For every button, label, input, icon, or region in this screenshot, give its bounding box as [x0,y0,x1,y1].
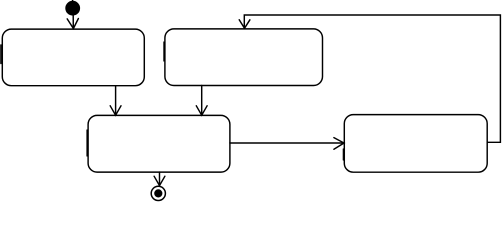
wire A3-to-final [159,172,161,185]
activity A4 (right rounded box) [344,115,487,173]
wire initial-to-A1 [72,15,74,29]
final node outer ring [151,186,165,200]
final node inner dot [154,189,162,197]
wire A2-to-A3 [201,86,203,116]
arrowhead into A2 top [239,20,250,29]
arrowhead into A4 [334,138,344,150]
stub above initial node [72,0,74,2]
activity A2 (top-middle rounded box) [165,29,323,86]
activity A1 (top-left rounded box) [2,29,144,86]
wire A3-to-A4 [230,142,344,144]
activity A3 (middle rounded box) [88,115,230,172]
arrowhead into A3 from A2 [196,106,207,115]
wire A4-to-A2 feedback loop [244,15,500,142]
arrowhead into A3 from A1 [110,106,121,115]
clipped label mark at A4 left edge [342,149,344,160]
arrowhead into final node [154,176,165,185]
clipped label mark at A3 left edge [86,130,88,156]
initial node [65,1,80,16]
clipped label mark at A1 left edge [0,45,2,64]
arrowhead into A1 [67,19,78,29]
wire A1-to-A3 [115,86,117,115]
clipped label mark at A2 left edge [163,42,165,61]
